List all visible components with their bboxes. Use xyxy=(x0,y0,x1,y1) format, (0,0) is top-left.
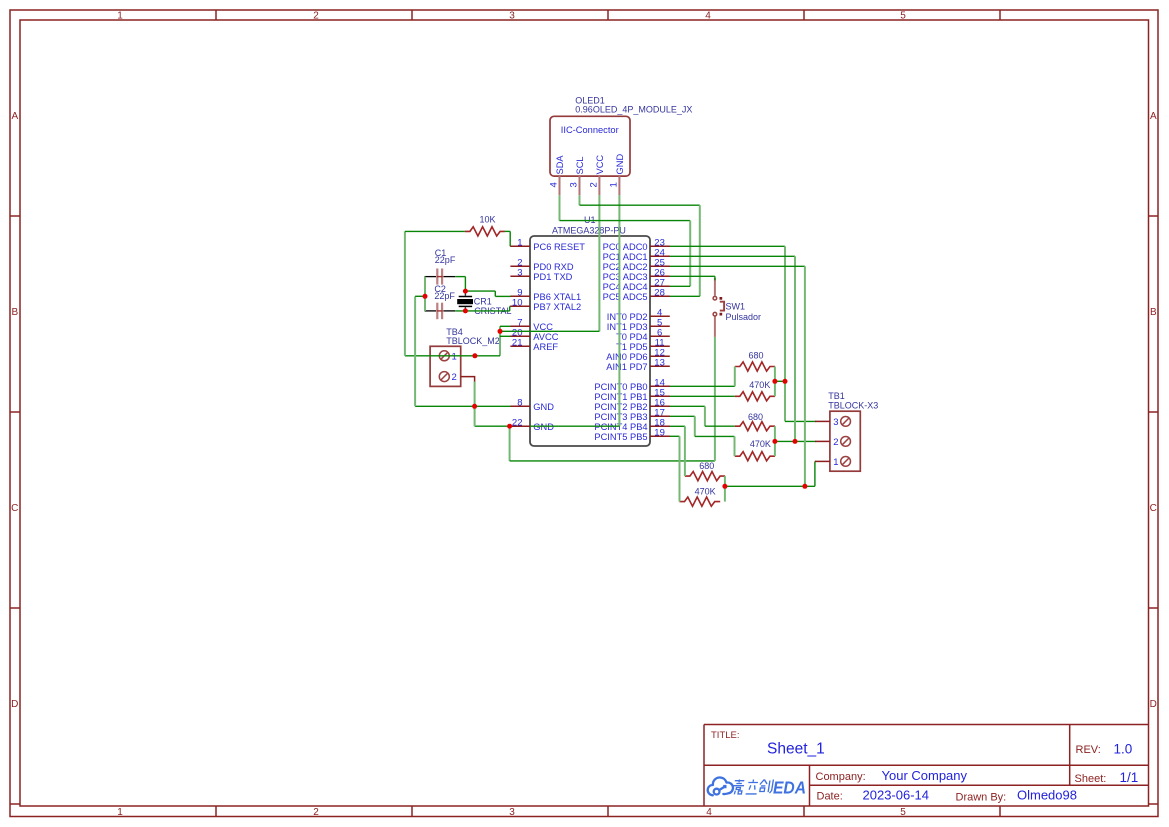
wire pin17 to 470Kb xyxy=(669,415,695,417)
svg-text:1/1: 1/1 xyxy=(1120,770,1139,785)
svg-text:PC2 ADC2: PC2 ADC2 xyxy=(603,262,648,272)
junction pair2 left xyxy=(772,439,777,444)
svg-text:2: 2 xyxy=(313,11,319,22)
svg-text:2: 2 xyxy=(833,437,838,448)
wire VCC: OLED pin2 down through U1 xyxy=(598,195,600,331)
svg-text:22pF: 22pF xyxy=(435,255,456,265)
wire VCC horizontal to junction xyxy=(500,330,599,332)
svg-text:PCINT1 PB1: PCINT1 PB1 xyxy=(594,392,647,402)
wire pair1 right junction xyxy=(774,367,776,397)
svg-text:INT0 PD2: INT0 PD2 xyxy=(607,312,648,322)
svg-text:PC5 ADC5: PC5 ADC5 xyxy=(603,292,648,302)
svg-text:PC1 ADC1: PC1 ADC1 xyxy=(603,252,648,262)
svg-text:5: 5 xyxy=(900,807,906,818)
junction GND pin22 xyxy=(507,424,512,429)
wire TB4 pin2 drop xyxy=(474,382,476,427)
junction pair3 left xyxy=(722,484,727,489)
svg-text:C: C xyxy=(1150,503,1157,514)
glyph jia xyxy=(732,780,745,795)
svg-text:PCINT2 PB2: PCINT2 PB2 xyxy=(594,402,647,412)
svg-text:SDA: SDA xyxy=(555,155,565,175)
wire pair3 rail to TB1 pin1 xyxy=(725,485,815,487)
wire pin15 to 470Ka xyxy=(669,395,735,397)
svg-text:AREF: AREF xyxy=(533,342,558,352)
resistor 680 b xyxy=(735,422,775,431)
svg-text:Olmedo98: Olmedo98 xyxy=(1017,788,1077,803)
svg-text:T0 PD4: T0 PD4 xyxy=(616,332,648,342)
wire AVCC to pin 20 xyxy=(500,335,511,337)
junction pair1 left xyxy=(772,379,777,384)
svg-text:A: A xyxy=(11,111,18,122)
svg-text:PCINT5 PB5: PCINT5 PB5 xyxy=(594,432,647,442)
capacitor C2 leads xyxy=(425,310,436,312)
svg-text:3: 3 xyxy=(569,182,580,187)
wire joining C1 and C2 left leads xyxy=(424,277,426,311)
connector OLED1 body xyxy=(550,116,630,176)
wire ADC3 pin26 to SW1 xyxy=(669,275,715,277)
TB1 pin stubs xyxy=(815,421,830,461)
wire GND: OLED pin1 down through U1 xyxy=(618,195,620,426)
TB1 pin 2 screw symbol xyxy=(841,437,851,447)
svg-text:680: 680 xyxy=(748,412,763,422)
capacitor C1 leads xyxy=(425,276,436,278)
wire VCC junction vertical xyxy=(499,326,501,356)
svg-text:PC4 ADC4: PC4 ADC4 xyxy=(603,282,648,292)
TB1 pin 1 screw symbol xyxy=(841,457,851,467)
svg-text:PC3 ADC3: PC3 ADC3 xyxy=(603,272,648,282)
TB4 pin 1 screw symbol xyxy=(439,351,449,361)
junction pair3 right xyxy=(802,484,807,489)
wire VCC left vertical to 10K xyxy=(404,231,406,355)
svg-text:3: 3 xyxy=(833,417,838,428)
svg-text:470K: 470K xyxy=(695,487,716,497)
U1 left pin stubs xyxy=(510,246,530,426)
resistor 470K a xyxy=(735,392,775,401)
resistor 680 a xyxy=(735,362,775,371)
U1 left pin numbers xyxy=(512,237,523,428)
svg-text:22pF: 22pF xyxy=(434,291,455,301)
svg-text:D: D xyxy=(11,699,18,710)
junction TB4 pin1 xyxy=(472,353,477,358)
wire C1 right to crystal top xyxy=(455,276,465,278)
wire ADC2 pin25 down xyxy=(669,265,805,267)
svg-text:3: 3 xyxy=(509,807,515,818)
wire ADC1 pin24 to TB1 pin2 xyxy=(669,255,795,257)
svg-text:2: 2 xyxy=(452,372,457,383)
svg-text:T1 PD5: T1 PD5 xyxy=(616,342,648,352)
svg-text:680: 680 xyxy=(749,350,764,360)
svg-text:Company:: Company: xyxy=(816,771,866,783)
logo JLCEDA xyxy=(708,777,733,795)
svg-text:470K: 470K xyxy=(750,439,771,449)
svg-text:PD0 RXD: PD0 RXD xyxy=(533,262,574,272)
crystal CR1 xyxy=(457,291,473,311)
svg-text:Sheet:: Sheet: xyxy=(1075,773,1107,785)
resistor 470K b xyxy=(735,452,775,461)
wire pin19 to 470Kc xyxy=(669,435,680,437)
svg-text:1: 1 xyxy=(117,11,123,22)
svg-text:PC6 RESET: PC6 RESET xyxy=(533,242,585,252)
wire 10K left xyxy=(405,230,465,232)
IC U1 body xyxy=(530,236,650,446)
junction GND pin8 xyxy=(472,404,477,409)
svg-text:2023-06-14: 2023-06-14 xyxy=(863,788,930,803)
svg-text:TBLOCK_M2: TBLOCK_M2 xyxy=(446,336,500,346)
junction pair2 right xyxy=(793,439,798,444)
svg-text:470K: 470K xyxy=(749,380,770,390)
svg-text:Sheet_1: Sheet_1 xyxy=(767,741,825,758)
svg-text:Pulsador: Pulsador xyxy=(726,312,762,322)
capacitor C2 plates xyxy=(436,303,438,320)
svg-text:REV:: REV: xyxy=(1076,744,1101,756)
svg-text:1: 1 xyxy=(452,351,457,362)
svg-text:TBLOCK-X3: TBLOCK-X3 xyxy=(828,401,878,411)
wire crystal top to pin 9 XTAL1 xyxy=(465,290,495,292)
svg-text:PD1 TXD: PD1 TXD xyxy=(533,272,572,282)
glyph li xyxy=(746,780,759,794)
svg-text:C: C xyxy=(11,503,18,514)
wire 10K right to pin 1 RESET xyxy=(505,230,511,232)
svg-text:5: 5 xyxy=(900,11,906,22)
pushbutton SW1 xyxy=(713,278,724,337)
svg-text:D: D xyxy=(1150,699,1157,710)
wire pair2 right junction xyxy=(774,426,776,456)
svg-text:SCL: SCL xyxy=(575,156,585,174)
wire GND crossing to pin22 xyxy=(475,425,620,427)
svg-text:CR1: CR1 xyxy=(474,296,492,306)
svg-text:4: 4 xyxy=(549,182,560,187)
junction crystal top xyxy=(463,289,468,294)
wire VCC rail to TB4 pin 1 xyxy=(405,355,500,357)
U1 right pin names xyxy=(594,242,647,442)
svg-text:4: 4 xyxy=(705,11,711,22)
wire SDA: OLED pin4 to U1 pin27 xyxy=(559,195,561,220)
svg-text:Your Company: Your Company xyxy=(882,768,968,783)
wire C2 right / crystal bottom to pin 10 XTAL2 xyxy=(455,310,510,312)
svg-text:B: B xyxy=(1150,307,1157,318)
svg-text:4: 4 xyxy=(706,807,712,818)
svg-text:AVCC: AVCC xyxy=(533,332,558,342)
svg-text:ATMEGA328P-PU: ATMEGA328P-PU xyxy=(552,226,626,236)
wire SCL: OLED pin3 to U1 pin28 xyxy=(579,195,581,205)
wire ADC0 pin23 to TB1 pin3 xyxy=(669,245,785,247)
svg-text:1: 1 xyxy=(117,807,123,818)
resistor 10K (RESET pullup) xyxy=(465,227,505,236)
junction capacitor bus xyxy=(423,294,428,299)
capacitor C1 plates xyxy=(436,269,438,285)
title block xyxy=(704,725,1149,807)
U1 right pin numbers xyxy=(654,237,665,438)
svg-text:10K: 10K xyxy=(480,215,496,225)
terminal block TB1 body xyxy=(830,411,860,471)
svg-text:AIN1 PD7: AIN1 PD7 xyxy=(606,362,647,372)
wire GND left vertical xyxy=(414,297,416,407)
svg-text:GND: GND xyxy=(533,402,554,412)
svg-text:1: 1 xyxy=(833,457,838,468)
svg-text:IIC-Connector: IIC-Connector xyxy=(561,125,619,135)
svg-text:GND: GND xyxy=(615,154,625,175)
wire pin16 to 680b xyxy=(669,405,705,407)
TB4 pin2 stub L-shape xyxy=(461,377,475,382)
svg-text:2: 2 xyxy=(588,182,599,187)
svg-text:VCC: VCC xyxy=(533,322,553,332)
wire GND link to capacitor bus xyxy=(415,295,425,297)
junction pair1 right xyxy=(783,379,788,384)
svg-text:TB1: TB1 xyxy=(828,391,845,401)
svg-text:680: 680 xyxy=(699,461,714,471)
capacitor C2 inter-plate tint xyxy=(437,310,443,312)
resistor 470K c xyxy=(680,497,721,506)
svg-text:1: 1 xyxy=(608,182,619,187)
svg-text:B: B xyxy=(11,307,18,318)
svg-text:0.96OLED_4P_MODULE_JX: 0.96OLED_4P_MODULE_JX xyxy=(575,105,692,115)
junction VCC xyxy=(498,329,503,334)
svg-text:EDA: EDA xyxy=(773,778,806,798)
OLED pin stubs xyxy=(560,176,620,195)
svg-text:3: 3 xyxy=(509,11,515,22)
svg-text:INT1 PD3: INT1 PD3 xyxy=(607,322,648,332)
capacitor C1 inter-plate tint xyxy=(437,276,443,278)
svg-text:TITLE:: TITLE: xyxy=(711,730,740,741)
svg-text:Drawn By:: Drawn By: xyxy=(956,792,1007,804)
wire pin14 to 680a xyxy=(669,385,735,387)
svg-text:PCINT0 PB0: PCINT0 PB0 xyxy=(594,382,647,392)
TB4 pin 2 screw symbol xyxy=(439,372,449,382)
svg-text:PCINT3 PB3: PCINT3 PB3 xyxy=(594,412,647,422)
wire SW1 ground rail xyxy=(509,426,511,461)
wire pair3 right junction xyxy=(724,476,726,502)
U1 right pin stubs xyxy=(650,246,670,436)
resistor 680 c xyxy=(685,472,725,481)
svg-text:Date:: Date: xyxy=(817,791,843,803)
svg-text:2: 2 xyxy=(313,807,319,818)
terminal block TB4 body xyxy=(430,346,461,386)
U1 left pin names xyxy=(533,242,585,432)
svg-text:AIN0 PD6: AIN0 PD6 xyxy=(606,352,647,362)
wire GND pin8 row xyxy=(415,405,511,407)
junction crystal bottom xyxy=(463,308,468,313)
svg-text:PC0 ADC0: PC0 ADC0 xyxy=(603,242,648,252)
svg-text:1.0: 1.0 xyxy=(1114,742,1133,757)
TB1 pin 3 screw symbol xyxy=(841,417,851,427)
svg-text:A: A xyxy=(1150,111,1157,122)
svg-text:PB7 XTAL2: PB7 XTAL2 xyxy=(533,302,581,312)
wire VCC to pin 7 xyxy=(500,325,511,327)
glyph chuang xyxy=(759,780,774,794)
svg-text:SW1: SW1 xyxy=(726,301,746,311)
wire pin18 to 680c xyxy=(669,425,685,427)
svg-text:PB6 XTAL1: PB6 XTAL1 xyxy=(533,292,581,302)
svg-text:VCC: VCC xyxy=(595,155,605,175)
